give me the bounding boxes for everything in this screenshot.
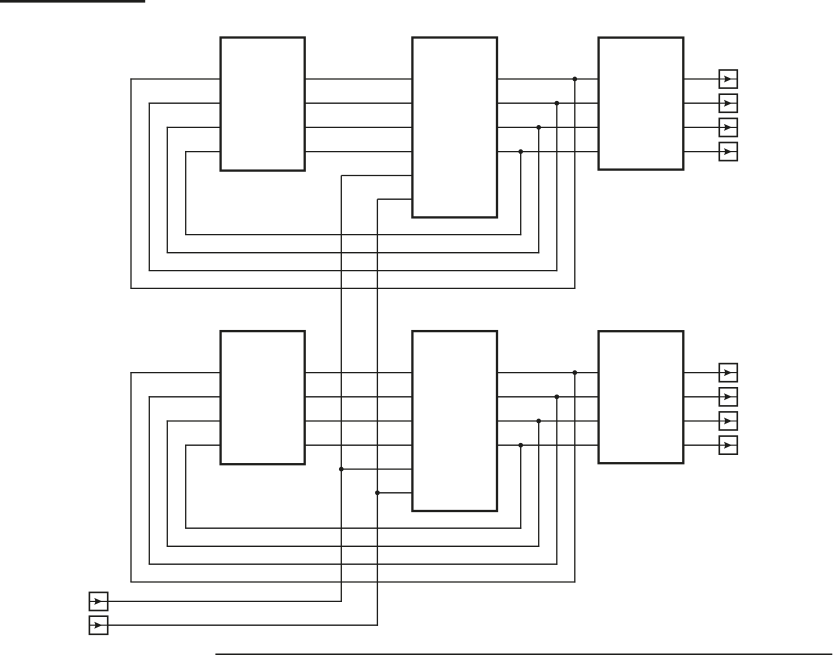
wire: middle block to right block row 1 (top half) <box>497 78 599 80</box>
wire: feedback bottom run row 2 (top half) <box>149 270 558 272</box>
wire: feedback rise row 2 (top half) <box>148 103 150 271</box>
wire: feedback return row 4 into left block (bottom half) <box>185 444 221 446</box>
wire: middle block to right block row 3 (bottom half) <box>497 420 599 422</box>
output port box 3 (bottom half) <box>719 412 737 430</box>
junction node row 2 (top half) <box>554 101 559 106</box>
output port box 2 (top half) <box>719 94 737 112</box>
wire: feedback return row 2 into left block (bottom half) <box>149 396 221 398</box>
wire: right block to output port 1 (bottom half) <box>683 372 719 374</box>
wire: middle block to right block row 2 (bottom half) <box>497 396 599 398</box>
wire: feedback bottom run row 1 (top half) <box>130 287 575 289</box>
input port box 2 (bottom left) <box>89 616 107 634</box>
junction node row 4 (top half) <box>518 149 523 154</box>
output port box 3 (top half) <box>719 118 737 136</box>
wire: feedback drop from node row 3 (top half) <box>538 127 540 253</box>
wire: middle block to right block row 2 (top half) <box>497 102 599 104</box>
junction node row 2 (bottom half) <box>554 394 559 399</box>
wire: feedback bottom run row 1 (bottom half) <box>130 581 575 583</box>
block: top-half right stage <box>599 38 684 170</box>
wire: feedback rise row 4 (bottom half) <box>185 445 187 529</box>
block: top-half left stage <box>221 38 305 171</box>
wire: right block to output port 3 (top half) <box>683 126 719 128</box>
wire: middle block to right block row 1 (bottom half) <box>497 372 599 374</box>
junction node row 1 (bottom half) <box>572 370 577 375</box>
output port box 1 (bottom half) <box>719 364 737 382</box>
junction node row 3 (bottom half) <box>536 419 541 424</box>
wire: input 2 branch into top middle block <box>377 198 412 200</box>
wire: left block to middle block row 2 (bottom half) <box>305 396 413 398</box>
junction node row 4 (bottom half) <box>518 443 523 448</box>
wire: feedback drop from node row 4 (bottom half) <box>520 445 522 529</box>
wire: feedback rise row 3 (top half) <box>166 127 168 253</box>
wire: middle block to right block row 4 (top half) <box>497 151 599 153</box>
wire: input 1 vertical riser <box>340 176 342 603</box>
page header rule (top-left partial bar) <box>0 0 145 3</box>
wire: right block to output port 2 (bottom half) <box>683 396 719 398</box>
wire: left block to middle block row 2 (top half) <box>305 102 413 104</box>
wire: right block to output port 2 (top half) <box>683 102 719 104</box>
wire: feedback rise row 2 (bottom half) <box>148 396 150 564</box>
output port box 1 (top half) <box>719 70 737 88</box>
wire: feedback drop from node row 3 (bottom half) <box>538 421 540 547</box>
wire: left block to middle block row 4 (bottom half) <box>305 444 413 446</box>
wire: right block to output port 3 (bottom half) <box>683 420 719 422</box>
wire: feedback return row 4 into left block (top half) <box>185 151 221 153</box>
wire: feedback drop from node row 2 (top half) <box>556 103 558 271</box>
wire: feedback rise row 1 (top half) <box>130 78 132 288</box>
junction node: input 1 tap for bottom half <box>339 467 344 472</box>
wire: right block to output port 1 (top half) <box>683 78 719 80</box>
junction node: input 2 tap for bottom half <box>375 490 380 495</box>
wire: feedback rise row 3 (bottom half) <box>166 420 168 546</box>
wire: feedback bottom run row 2 (bottom half) <box>149 563 558 565</box>
wire: feedback bottom run row 4 (bottom half) <box>185 527 521 529</box>
wire: right block to output port 4 (top half) <box>683 151 719 153</box>
wire: left block to middle block row 4 (top half) <box>305 151 413 153</box>
block: bottom-half left stage <box>221 331 305 464</box>
wire: input 1 branch into top middle block <box>341 175 412 177</box>
wire: left block to middle block row 1 (bottom half) <box>305 372 413 374</box>
wire: left block to middle block row 1 (top half) <box>305 78 413 80</box>
junction node row 1 (top half) <box>572 77 577 82</box>
wire: feedback drop from node row 4 (top half) <box>520 152 522 236</box>
wire: feedback return row 3 into left block (top half) <box>167 126 221 128</box>
junction node row 3 (top half) <box>536 125 541 130</box>
wire: feedback rise row 4 (top half) <box>185 151 187 235</box>
output port box 2 (bottom half) <box>719 388 737 406</box>
wire: feedback drop from node row 1 (top half) <box>574 79 576 289</box>
wire: input 2 branch into bottom middle block <box>377 492 412 494</box>
wire: left block to middle block row 3 (bottom half) <box>305 420 413 422</box>
wire: feedback return row 3 into left block (bottom half) <box>167 420 221 422</box>
block: bottom-half right stage <box>599 331 684 463</box>
wire: input 1 horizontal run from port <box>108 600 342 602</box>
wire: feedback drop from node row 2 (bottom half) <box>556 397 558 565</box>
wire: feedback return row 1 into left block (top half) <box>130 78 220 80</box>
wire: feedback bottom run row 4 (top half) <box>185 234 521 236</box>
wire: middle block to right block row 3 (top half) <box>497 126 599 128</box>
wire: feedback return row 2 into left block (top half) <box>149 102 221 104</box>
wire: input 2 horizontal run from port <box>108 624 378 626</box>
output port box 4 (bottom half) <box>719 436 737 454</box>
page footer rule <box>215 654 832 655</box>
wire: input 2 vertical riser <box>376 199 378 626</box>
wire: left block to middle block row 3 (top half) <box>305 126 413 128</box>
wire: input 1 branch into bottom middle block <box>341 468 412 470</box>
wire: feedback rise row 1 (bottom half) <box>130 372 132 582</box>
wire: feedback bottom run row 3 (bottom half) <box>167 545 540 547</box>
wire: middle block to right block row 4 (bottom half) <box>497 444 599 446</box>
block: top-half middle stage <box>412 38 497 218</box>
wire: feedback return row 1 into left block (bottom half) <box>130 372 220 374</box>
wire: feedback drop from node row 1 (bottom half) <box>574 373 576 583</box>
block: bottom-half middle stage <box>412 331 497 511</box>
output port box 4 (top half) <box>719 143 737 161</box>
input port box 1 (bottom left) <box>89 592 107 610</box>
wire: right block to output port 4 (bottom half) <box>683 444 719 446</box>
wire: feedback bottom run row 3 (top half) <box>167 252 540 254</box>
